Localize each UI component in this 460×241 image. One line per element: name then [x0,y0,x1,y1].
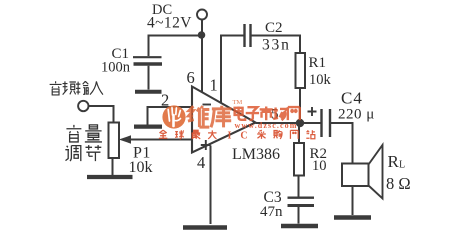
svg-text:www.dzsc.com: www.dzsc.com [235,121,298,130]
svg-text:47n: 47n [260,204,283,220]
ground speaker [334,215,371,219]
svg-text:100n: 100n [101,60,131,76]
svg-text:L: L [399,160,405,171]
resistor R2 [294,143,304,176]
svg-text:C2: C2 [265,20,283,36]
capacitor C4 [320,109,322,137]
wire to pin 2 [147,106,192,108]
minus sign pin2 [203,104,212,106]
wire C3 to ground [298,207,300,224]
wire DC terminal down to pin 6 [201,20,203,93]
plus sign pin3 [201,140,211,150]
svg-text:TM: TM [233,99,243,106]
wire R1 to output node [299,88,301,122]
wire T-bar up to pin2 line [147,106,149,125]
node input T-bar lower [134,124,162,128]
svg-text:IC: IC [228,131,257,142]
ground C3 [281,224,318,228]
label audio input (Chinese) [50,81,103,95]
speaker horn [369,145,383,199]
DC supply terminal [197,10,207,20]
wire supply rail to C1 [148,35,202,37]
svg-text:4: 4 [197,153,205,172]
svg-text:220 μ: 220 μ [338,106,375,122]
capacitor C2 [243,24,245,47]
svg-text:2: 2 [161,91,169,110]
svg-text:4~12V: 4~12V [147,14,192,31]
wire input to pot [89,106,114,123]
wire C1 bottom lead [148,66,150,90]
ground pin4 [183,225,227,229]
watermark logo circle [162,105,185,128]
op-amp U1 LM386 triangle [192,87,256,153]
plus sign C4 [308,107,317,116]
svg-text:10k: 10k [309,72,332,88]
wire pot to ground [112,158,114,175]
label volume adjust (Chinese) [65,125,102,161]
wire C2 to R1 top [252,36,301,54]
svg-text:10: 10 [312,158,327,174]
capacitor C1 [133,56,162,58]
node output junction [296,119,304,127]
potentiometer P1 body [109,123,120,159]
svg-text:6: 6 [187,68,195,87]
svg-text:C4: C4 [341,89,363,108]
node junction supply rail [198,31,206,39]
svg-text:R: R [388,152,400,171]
wire pin 1 up and to C2 [221,36,244,104]
wire pin 5 output to C4 [256,122,322,124]
watermark slogan row [159,130,315,139]
svg-text:10k: 10k [129,159,153,176]
audio input terminal [78,101,88,111]
capacitor C3 [288,196,315,198]
ground pot [87,175,133,179]
wiper arrow P1 [119,135,131,143]
svg-text:8 Ω: 8 Ω [386,174,411,193]
wire C4 to speaker [331,123,353,164]
wire wiper to pin 3 [130,139,192,141]
node input T-bar upper [135,90,162,94]
svg-text:1: 1 [210,76,218,95]
wire node down to R2 [298,123,300,143]
watermark weiku big chars [188,106,232,128]
wire speaker to ground [352,186,354,215]
svg-text:33n: 33n [262,37,291,54]
wire R2 to C3 [298,176,300,197]
watermark dianzishichangwang chars [235,107,300,121]
resistor R1 [296,53,306,88]
svg-text:LM386: LM386 [232,146,280,163]
wire pin 4 to ground [210,146,212,225]
svg-text:R1: R1 [309,55,327,71]
wire rail down to C1 top [148,35,150,57]
speaker RL body [342,164,369,187]
